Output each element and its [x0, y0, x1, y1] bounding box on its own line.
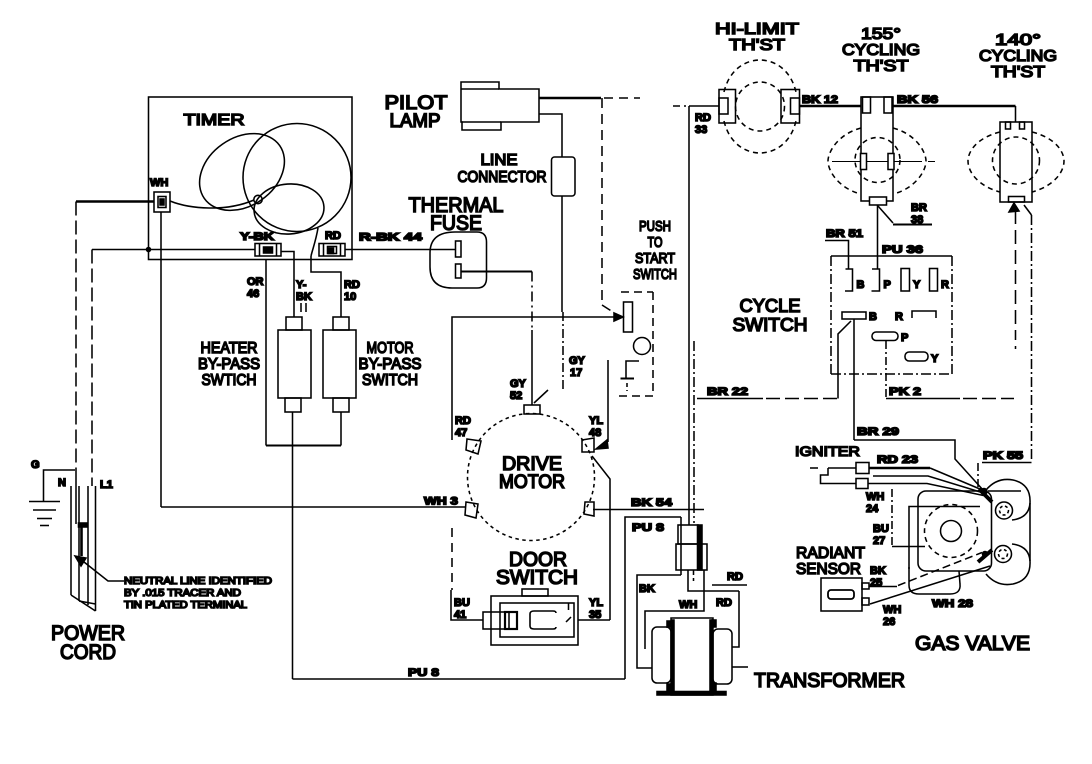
- wire PK 55 to valve: [977, 463, 979, 490]
- svg-text:33: 33: [695, 124, 707, 136]
- svg-text:YL: YL: [589, 597, 603, 609]
- 140 cycling thermostat S5: [1000, 122, 1032, 202]
- thermal fuse F1: [430, 232, 487, 288]
- svg-text:GY: GY: [510, 378, 527, 390]
- wire ground: [44, 470, 76, 501]
- svg-text:PK 55: PK 55: [983, 450, 1023, 462]
- timer cam small loop: [252, 182, 325, 237]
- gas valve body: [918, 491, 992, 571]
- svg-text:PU 8: PU 8: [632, 522, 664, 534]
- svg-text:27: 27: [873, 535, 885, 547]
- 155 cycling thermostat S4: [861, 97, 893, 201]
- wire WH 26: [870, 566, 990, 604]
- wires below connector: [688, 570, 739, 591]
- wire RD 33 vertical: [673, 105, 686, 107]
- svg-text:TH'ST: TH'ST: [991, 64, 1045, 81]
- wire L1 vertical dashed: [91, 250, 93, 487]
- wire YL 35: [578, 619, 610, 621]
- svg-text:RD: RD: [727, 571, 743, 583]
- svg-text:CORD: CORD: [60, 641, 116, 664]
- svg-text:MOTOR: MOTOR: [499, 472, 565, 493]
- svg-text:R-BK 44: R-BK 44: [359, 232, 423, 244]
- svg-text:PU 8: PU 8: [408, 667, 439, 679]
- wire GY 17 dash-dot stub: [562, 312, 564, 392]
- contact P: [872, 332, 898, 341]
- wire BR 51: [825, 241, 849, 270]
- svg-text:BU: BU: [454, 597, 470, 609]
- svg-text:WH: WH: [150, 177, 168, 189]
- wire heater by-pass bottom long vertical: [292, 412, 294, 679]
- svg-text:BR 29: BR 29: [857, 426, 899, 438]
- wire WH to transformer: [645, 570, 704, 649]
- svg-text:CONNECTOR: CONNECTOR: [458, 169, 547, 186]
- wire PU 8 bottom: [293, 678, 626, 680]
- wire BK to transformer: [637, 575, 681, 668]
- svg-text:START: START: [635, 250, 675, 267]
- svg-text:48: 48: [589, 427, 601, 439]
- push to start switch S2 dashed box: [621, 291, 653, 293]
- svg-text:SWITCH: SWITCH: [496, 567, 578, 589]
- svg-text:BY .015 TRACER AND: BY .015 TRACER AND: [124, 588, 241, 599]
- timer U1 box: [149, 97, 353, 260]
- terminal GY 52: [524, 405, 540, 414]
- wire WH 24: [868, 484, 984, 496]
- wire B contact to BR22: [838, 321, 851, 399]
- wire BK 54: [593, 509, 704, 511]
- wire PU 36 from 155 to cycle switch: [877, 205, 879, 269]
- callout GY 52: [534, 390, 548, 403]
- svg-text:FUSE: FUSE: [430, 212, 482, 235]
- power cord neutral pin: [75, 470, 77, 524]
- power cord conductors: [70, 486, 72, 595]
- svg-text:RADIANT: RADIANT: [796, 545, 865, 562]
- svg-text:38: 38: [911, 214, 923, 226]
- push switch plunger: [624, 302, 633, 332]
- wire dash-dot parallel: [693, 341, 695, 523]
- dashed enclosure left: [451, 528, 453, 590]
- svg-text:SENSOR: SENSOR: [796, 561, 861, 578]
- door switch S1: [491, 596, 578, 645]
- svg-text:CYCLING: CYCLING: [979, 48, 1057, 65]
- svg-text:26: 26: [883, 616, 895, 628]
- svg-text:WH 3: WH 3: [424, 496, 458, 508]
- svg-text:52: 52: [510, 390, 522, 402]
- svg-text:RD: RD: [716, 597, 732, 609]
- svg-text:LAMP: LAMP: [390, 111, 441, 132]
- svg-text:YL: YL: [589, 415, 603, 427]
- wire line connector down: [561, 196, 563, 312]
- wire WH 3 horizontal: [161, 506, 466, 508]
- svg-text:41: 41: [454, 609, 466, 621]
- svg-text:Y-: Y-: [296, 279, 307, 291]
- wire BK 12: [800, 105, 862, 107]
- wire pilot lamp top thick: [539, 97, 601, 99]
- svg-text:NEUTRAL LINE IDENTIFIED: NEUTRAL LINE IDENTIFIED: [124, 576, 272, 587]
- drive motor M1 dashed circle: [468, 414, 595, 541]
- svg-text:HI-LIMIT: HI-LIMIT: [715, 21, 799, 38]
- wire PU 8 left drop: [625, 517, 681, 679]
- wire WH 3 left vertical: [160, 212, 162, 507]
- svg-text:BK: BK: [296, 291, 312, 303]
- wire BK 25: [869, 586, 897, 588]
- wire BK 56: [893, 105, 1016, 107]
- svg-text:BK 54: BK 54: [631, 497, 673, 509]
- svg-text:WH: WH: [866, 491, 884, 503]
- svg-text:WH 28: WH 28: [932, 598, 973, 610]
- svg-text:OR: OR: [247, 276, 264, 288]
- svg-text:CYCLING: CYCLING: [842, 42, 920, 59]
- wire BR 29 vertical: [853, 319, 855, 440]
- wire 140 down dashed: [1015, 210, 1017, 340]
- wire BU 41: [451, 590, 483, 620]
- dash-dot centerline: [891, 489, 893, 547]
- svg-text:BR: BR: [911, 202, 927, 214]
- dashed line pilot lamp to push switch: [601, 98, 603, 305]
- svg-text:Y-BK: Y-BK: [240, 231, 274, 243]
- svg-text:G: G: [31, 459, 40, 471]
- svg-text:SWITCH: SWITCH: [633, 266, 677, 283]
- svg-text:Y: Y: [931, 353, 939, 365]
- connector PU 8: [678, 525, 698, 544]
- terminal YL 48: [582, 438, 594, 452]
- wire into hi-limit: [689, 105, 719, 107]
- line connector: [552, 157, 576, 196]
- wire 140 to PK 55 dash-dot: [1024, 205, 1032, 215]
- svg-text:35: 35: [589, 609, 601, 621]
- svg-text:R: R: [941, 279, 949, 291]
- svg-text:LINE: LINE: [481, 152, 518, 169]
- wire WH left vertical dashed: [75, 202, 77, 471]
- wire YL48 to door switch: [592, 456, 610, 620]
- timer cam left leaf: [185, 118, 299, 226]
- wire PK 2: [886, 398, 960, 400]
- gas valve right edge: [1029, 503, 1031, 561]
- timer cam cusp: [254, 195, 262, 203]
- wire WH thick from timer to left: [76, 200, 154, 202]
- wire BK56 corner into 140: [1015, 106, 1017, 122]
- leader transformer label: [732, 666, 748, 668]
- terminal RD: [319, 244, 345, 257]
- svg-text:PU 36: PU 36: [882, 244, 923, 256]
- wire OR 46 vertical: [265, 260, 267, 446]
- svg-text:155°: 155°: [861, 26, 901, 43]
- svg-text:17: 17: [570, 367, 582, 379]
- wire RD 23: [869, 467, 930, 470]
- svg-text:P: P: [901, 332, 908, 344]
- timer cam big circle: [243, 124, 351, 232]
- wire to GY 52: [531, 272, 533, 331]
- heater by-pass switch SW1: [286, 317, 302, 330]
- cycle switch S6 box: [831, 255, 952, 257]
- svg-text:BK 12: BK 12: [802, 94, 838, 106]
- terminal Y top: [901, 269, 910, 292]
- contact B: [842, 312, 866, 319]
- svg-text:GAS VALVE: GAS VALVE: [915, 633, 1030, 655]
- pilot lamp DS1: [461, 82, 539, 130]
- junction timer left edge: [147, 248, 151, 252]
- leader line neutral note: [84, 562, 124, 581]
- svg-text:Y: Y: [913, 279, 921, 291]
- svg-text:RD: RD: [455, 415, 471, 427]
- callout BR 38: [878, 206, 893, 223]
- svg-text:RD: RD: [695, 112, 711, 124]
- svg-text:P: P: [884, 279, 891, 291]
- svg-text:BY-PASS: BY-PASS: [198, 356, 260, 373]
- terminal BK 54: [584, 502, 594, 516]
- svg-text:HEATER: HEATER: [201, 340, 258, 357]
- svg-text:TRANSFORMER: TRANSFORMER: [754, 670, 905, 692]
- wire RD 10 from RD terminal to motor by-pass: [311, 256, 341, 317]
- svg-text:RD 23: RD 23: [877, 454, 918, 466]
- contact Y: [905, 352, 928, 361]
- svg-text:MOTOR: MOTOR: [367, 340, 414, 357]
- svg-text:PUSH: PUSH: [639, 218, 671, 235]
- svg-text:IGNITER: IGNITER: [795, 443, 860, 459]
- wire BU 27: [892, 546, 925, 548]
- wire motor by-pass bottom: [340, 412, 342, 446]
- igniter lead-in dash: [810, 467, 818, 469]
- svg-text:10: 10: [344, 291, 356, 303]
- svg-text:47: 47: [455, 427, 467, 439]
- motor by-pass switch SW2: [333, 317, 349, 330]
- svg-text:BR 22: BR 22: [707, 386, 748, 398]
- timer cam follower from WH: [170, 200, 254, 208]
- hi-limit thermostat S3: [736, 82, 785, 131]
- wire BR 22: [697, 398, 763, 400]
- wire thermal fuse output: [461, 271, 532, 273]
- svg-text:TH'ST: TH'ST: [729, 37, 785, 54]
- svg-text:BR 51: BR 51: [826, 228, 863, 240]
- svg-text:TO: TO: [648, 234, 663, 251]
- gas valve top edge extension: [988, 490, 1021, 492]
- wire Y-BK to heater by-pass: [281, 252, 294, 318]
- transformer T1: [671, 618, 713, 695]
- svg-text:R: R: [895, 311, 903, 323]
- svg-text:WH: WH: [679, 599, 697, 611]
- terminal WH on timer: [154, 192, 170, 212]
- timer cam tail to RD terminal: [311, 228, 318, 256]
- svg-text:CYCLE: CYCLE: [740, 296, 801, 316]
- svg-text:RD: RD: [325, 230, 341, 242]
- wire joining by-pass bottoms: [266, 445, 341, 447]
- gas valve bottom-left flange: [909, 567, 960, 594]
- wire middle to valve: [873, 476, 984, 493]
- ground symbol: [29, 501, 60, 503]
- svg-text:TIMER: TIMER: [184, 112, 245, 129]
- push switch contact circle: [634, 338, 651, 355]
- terminal RD 47: [466, 439, 481, 454]
- arrow under 140: [1009, 203, 1019, 212]
- wire pilot lamp to line connector: [539, 114, 562, 157]
- wire P contact down dash-dot: [885, 341, 887, 399]
- wire RD to transformer: [732, 591, 739, 647]
- svg-text:140°: 140°: [995, 32, 1041, 49]
- svg-text:B: B: [869, 311, 877, 323]
- svg-text:24: 24: [866, 503, 879, 515]
- terminal WH 3: [465, 502, 478, 518]
- svg-text:BK: BK: [870, 565, 886, 577]
- svg-text:SWTICH: SWTICH: [202, 372, 257, 389]
- svg-text:WH: WH: [883, 604, 901, 616]
- wire push switch to YL 48: [607, 360, 609, 442]
- wire L1 to Y-BK terminal: [92, 249, 255, 251]
- svg-text:BK: BK: [639, 583, 655, 595]
- gas valve terminal top: [996, 502, 1013, 519]
- terminal B top: [845, 269, 853, 291]
- terminal R top: [930, 269, 938, 292]
- terminal Y-BK: [255, 244, 281, 257]
- wire RD 47 to push switch with arrow: [452, 317, 614, 440]
- svg-text:BY-PASS: BY-PASS: [359, 356, 422, 373]
- svg-text:TH'ST: TH'ST: [854, 58, 909, 75]
- svg-text:L1: L1: [100, 479, 113, 491]
- gas valve circles: [925, 505, 978, 558]
- wire BR 29 to valve: [854, 440, 984, 491]
- contact R: [912, 311, 936, 318]
- svg-text:BU: BU: [873, 523, 889, 535]
- svg-text:RD: RD: [344, 279, 360, 291]
- terminal P top: [872, 269, 880, 291]
- svg-text:SWITCH: SWITCH: [362, 372, 418, 389]
- svg-text:46: 46: [247, 288, 259, 300]
- svg-text:TIN PLATED TERMINAL: TIN PLATED TERMINAL: [124, 600, 247, 611]
- arrow neutral tracer: [75, 556, 86, 566]
- igniter E1: [821, 468, 829, 484]
- svg-text:BK 56: BK 56: [897, 94, 938, 106]
- svg-text:B: B: [857, 279, 865, 291]
- radiant sensor RS1: [821, 578, 862, 611]
- svg-text:PK 2: PK 2: [889, 386, 921, 398]
- svg-text:N: N: [58, 477, 66, 489]
- svg-text:GY: GY: [569, 355, 586, 367]
- svg-text:SWITCH: SWITCH: [733, 315, 808, 335]
- gas valve terminal bottom: [995, 546, 1012, 563]
- push switch lower contact: [626, 361, 639, 378]
- wire R-BK 44 from RD terminal to thermal fuse: [345, 249, 456, 251]
